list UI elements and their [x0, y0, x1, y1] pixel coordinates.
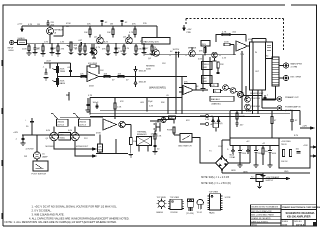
svg-text:7.5V: 7.5V	[240, 54, 245, 56]
svg-text:Q5: Q5	[46, 138, 49, 140]
svg-text:500K: 500K	[146, 68, 151, 70]
diode D20 rectifier	[212, 117, 215, 128]
resistor R61	[271, 111, 277, 139]
resistor R4 collector load	[84, 24, 91, 38]
svg-text:DWELL: DWELL	[202, 64, 210, 66]
svg-text:SHIELD: SHIELD	[18, 38, 26, 40]
resistor R42	[128, 129, 137, 158]
resistor R45	[169, 116, 176, 120]
svg-text:10K: 10K	[74, 45, 78, 47]
reverb return ladder	[201, 55, 212, 91]
svg-text:(2)TO-3: (2)TO-3	[79, 124, 86, 126]
wire output bar feeds	[262, 86, 276, 100]
svg-text:LAMP: LAMP	[42, 156, 48, 159]
filter rail top	[230, 138, 279, 146]
capacitor C11 input	[43, 67, 49, 81]
svg-text:MPSA18: MPSA18	[188, 47, 197, 50]
resistor R9 to gnd	[102, 44, 110, 56]
diode D1 clamp up	[134, 66, 147, 77]
svg-text:22pF: 22pF	[148, 101, 153, 103]
svg-text:REV: REV	[202, 44, 207, 46]
svg-text:FOOT SWITCH: FOOT SWITCH	[32, 174, 47, 176]
diode D10	[227, 146, 235, 155]
regulator box	[279, 138, 310, 168]
svg-text:REV: REV	[202, 78, 207, 80]
reverb feedback loop	[216, 32, 246, 43]
svg-text:47K: 47K	[61, 49, 65, 51]
node dots mixer out	[114, 76, 144, 77]
resistor R3 labels	[66, 23, 148, 28]
capacitor C7 rail decouple	[120, 20, 128, 26]
resistor R21 input	[80, 74, 86, 78]
svg-text:BREAKER: BREAKER	[137, 133, 147, 136]
svg-text:GRN: GRN	[231, 170, 236, 172]
transistor Q13 pre-driver	[230, 88, 236, 94]
svg-text:SCHEMATIC DIAGRAM-: SCHEMATIC DIAGRAM-	[286, 211, 315, 215]
svg-text:120VAC: 120VAC	[151, 133, 159, 136]
wire switch to bridge	[192, 138, 216, 164]
svg-text:1.5K: 1.5K	[157, 136, 162, 138]
svg-text:NOTE: SW(+) = 1 + 2 3 4 B: NOTE: SW(+) = 1 + 2 3 4 B	[201, 177, 229, 179]
diode D21 rectifier	[217, 117, 220, 128]
node dots filter	[239, 145, 270, 166]
svg-text:220K: 220K	[224, 41, 229, 43]
transistor Q3a buffer	[91, 44, 97, 58]
wire PA top rail	[90, 97, 182, 99]
capacitor C10 electrolytic pair	[173, 49, 180, 58]
svg-text:6.8K: 6.8K	[138, 49, 143, 51]
svg-text:10K: 10K	[104, 74, 108, 76]
resistor R23	[104, 74, 111, 78]
transformer T2 aux circuit	[243, 172, 289, 189]
svg-text:+: +	[89, 80, 90, 82]
wire Q1 connections	[50, 26, 63, 44]
wire U2 out to reverb tank	[248, 39, 266, 47]
node dot tone	[57, 62, 58, 63]
svg-text:14 PIN: 14 PIN	[225, 197, 231, 199]
wire Q3 stubs	[128, 35, 130, 44]
svg-text:1.2K: 1.2K	[118, 51, 123, 53]
wire jack feeds	[262, 99, 277, 108]
resistor R5 to gnd	[79, 44, 87, 56]
wire bridge right	[229, 146, 251, 163]
svg-text:25V: 25V	[51, 25, 55, 27]
svg-text:DWG NO.: DWG NO.	[294, 221, 303, 223]
ground rail bottom	[230, 173, 310, 178]
wire bridge bottom	[222, 170, 262, 174]
svg-text:TOP VIEW: TOP VIEW	[209, 191, 218, 193]
resistor R31 reverb mix	[224, 41, 234, 55]
transistor Q5	[188, 47, 197, 57]
svg-text:TREB: TREB	[60, 71, 66, 73]
svg-text:DATE 10-2-79 SHT 1: DATE 10-2-79 SHT 1	[251, 220, 268, 223]
resistor R8 collector load	[107, 24, 114, 38]
dashed shield box	[186, 19, 284, 53]
svg-text:30710-S: 30710-S	[296, 224, 305, 226]
wire main row 1	[27, 43, 158, 45]
wire treble bus vertical	[57, 63, 59, 87]
bias network box	[210, 83, 234, 105]
capacitor C41 electrolytic	[238, 146, 247, 168]
svg-text:470K: 470K	[66, 23, 71, 25]
resistor R14 to gnd	[134, 44, 143, 56]
transistor Q12 pre-driver	[223, 85, 229, 91]
thermal breaker box	[137, 131, 152, 152]
op-amp U1 mixer	[87, 72, 99, 82]
title block	[251, 205, 317, 226]
bridge rectifier BR1	[216, 154, 237, 171]
wire output rail	[22, 134, 95, 136]
node dots row1	[42, 43, 144, 44]
package outline: TO-220	[188, 199, 194, 211]
svg-text:1N4148: 1N4148	[139, 82, 147, 84]
svg-text:8.2V: 8.2V	[104, 42, 109, 44]
svg-text:PATCH EQ 47K: PATCH EQ 47K	[144, 40, 160, 43]
wire Q2 emitter-collector	[90, 35, 100, 44]
svg-text:GND: GND	[284, 171, 289, 173]
svg-text:TO-92: TO-92	[197, 212, 202, 214]
power switch box	[174, 133, 192, 148]
resistor R13 to gnd	[118, 44, 126, 56]
svg-text:+20V REG: +20V REG	[281, 141, 291, 143]
wire tone input	[44, 63, 71, 69]
svg-text:MJ15003: MJ15003	[46, 146, 54, 148]
svg-text:2N6254: 2N6254	[79, 121, 86, 123]
svg-text:+42V: +42V	[13, 132, 19, 134]
svg-text:10K: 10K	[118, 74, 122, 76]
resistor R20	[199, 48, 206, 55]
svg-text:2.1V: 2.1V	[222, 58, 227, 60]
svg-text:REV A: REV A	[251, 224, 257, 227]
svg-text:+15V: +15V	[187, 29, 193, 31]
svg-text:BASS: BASS	[60, 82, 66, 85]
svg-text:47K 4558: 47K 4558	[88, 63, 98, 65]
wire jack to pad	[14, 43, 18, 44]
jack J3 ext speaker	[279, 75, 302, 80]
svg-text:4.7K/5W: 4.7K/5W	[26, 149, 34, 151]
wire reverb vertical drops	[241, 51, 243, 114]
resistor R12 collector load	[129, 24, 136, 38]
svg-text:TOP VIEW: TOP VIEW	[170, 197, 179, 199]
svg-text:DRAWN JW CHK APPD: DRAWN JW CHK APPD	[251, 217, 271, 220]
svg-text:FUSE: FUSE	[167, 130, 173, 132]
feedback loop lower	[96, 139, 128, 154]
transistor Q16	[212, 52, 218, 61]
wire tone-to-PA	[60, 117, 103, 119]
svg-text:NOTE: 1. ALL RESISTORS VALUES: NOTE: 1. ALL RESISTORS VALUES ARE IN OHM…	[5, 220, 118, 224]
svg-text:SCALE: SCALE	[282, 220, 289, 223]
node dots row2	[169, 54, 220, 55]
transistor Q10	[245, 104, 261, 110]
svg-text:CA3094: CA3094	[156, 211, 163, 214]
svg-text:5W(2): 5W(2)	[60, 138, 66, 140]
transistor Q14 driver	[221, 86, 263, 100]
transistor Q15 reverb switch	[150, 117, 166, 122]
svg-text:ANG =1 DEG MATL FINISH: ANG =1 DEG MATL FINISH	[251, 214, 274, 217]
wire bridge top	[222, 140, 230, 157]
svg-text:PEAVEY ELECTRONICS CORP. MERID: PEAVEY ELECTRONICS CORP. MERIDIAN	[282, 206, 320, 209]
svg-text:(TO-220): (TO-220)	[186, 213, 194, 215]
op-amp U2 reverb driver	[236, 35, 253, 52]
diode D11	[247, 146, 250, 155]
svg-text:EXT. SPKR: EXT. SPKR	[291, 77, 302, 79]
svg-text:MAIN SPKR: MAIN SPKR	[291, 63, 303, 66]
svg-text:0.55V: 0.55V	[246, 111, 252, 113]
node dots PA rail	[114, 97, 176, 98]
transistor Q4	[148, 50, 159, 60]
svg-text:100pF: 100pF	[93, 102, 100, 104]
svg-text:470K: 470K	[96, 133, 101, 135]
svg-text:SUPPLY: SUPPLY	[266, 180, 274, 182]
fuse resistor	[158, 120, 175, 134]
emitter resistor box	[59, 133, 71, 141]
reverb tank enclosure	[250, 42, 266, 95]
package outline: DIP-14 top view	[207, 191, 222, 210]
svg-text:UNLESS NOTED TOLERANCES: UNLESS NOTED TOLERANCES	[251, 205, 278, 208]
svg-text:MJE3055: MJE3055	[252, 106, 261, 108]
svg-text:1N5402(4): 1N5402(4)	[213, 123, 223, 125]
svg-text:250K: 250K	[60, 81, 65, 83]
svg-text:0.6V: 0.6V	[198, 59, 203, 61]
attenuator pad box	[18, 38, 27, 45]
patch jack box	[142, 38, 170, 45]
bass pot	[52, 79, 65, 86]
svg-text:10K: 10K	[66, 95, 70, 97]
svg-text:NONE: NONE	[282, 224, 288, 226]
svg-text:+21V PREAMP: +21V PREAMP	[266, 176, 280, 179]
svg-text:(MAIN BD): (MAIN BD)	[212, 103, 222, 106]
node dots output rail	[31, 134, 75, 135]
svg-text:47K: 47K	[132, 24, 136, 26]
transistor Q2	[94, 37, 103, 44]
notes text block	[5, 205, 130, 225]
svg-text:2.2K: 2.2K	[149, 106, 154, 108]
wire tank to bus	[253, 90, 263, 114]
wire V+ rail	[22, 25, 157, 27]
resistor R40	[114, 98, 122, 120]
bias pot P6	[73, 113, 90, 126]
op-amp U4	[179, 82, 196, 95]
svg-text:4. ALL CAPACITORS VALUES ARE I: 4. ALL CAPACITORS VALUES ARE IN MICROFAR…	[29, 216, 130, 220]
capacitor C0 to gnd	[33, 44, 41, 55]
capacitor C6 to gnd	[114, 44, 122, 55]
reverb return labels	[146, 66, 155, 71]
svg-text:220K: 220K	[22, 49, 27, 51]
svg-text:+20V: +20V	[303, 145, 308, 147]
supply arrow +15V	[183, 25, 192, 34]
svg-text:NOTE: SW(-) = 1 + 2 B C (D): NOTE: SW(-) = 1 + 2 B C (D)	[201, 183, 231, 185]
wire PA bus rails	[90, 111, 290, 117]
svg-text:2W: 2W	[24, 156, 27, 158]
AC outlet O2	[200, 122, 214, 126]
capacitor C15 comp	[93, 102, 100, 109]
wire row 2	[144, 54, 236, 56]
svg-text:MDA: MDA	[230, 154, 235, 157]
svg-text:2N6254: 2N6254	[57, 121, 64, 123]
svg-text:BIAS ADJ: BIAS ADJ	[211, 98, 220, 101]
svg-text:DIM .XX=.01 FRAC=1/32: DIM .XX=.01 FRAC=1/32	[251, 210, 271, 213]
transistor Q1	[47, 28, 64, 35]
wire riser R44	[140, 98, 154, 112]
svg-text:4.7K: 4.7K	[88, 95, 93, 97]
node dots bus	[175, 113, 242, 114]
capacitor C13 tone	[66, 92, 70, 101]
svg-text:+: +	[238, 49, 239, 51]
volume pot P1	[67, 42, 79, 55]
footswitch box	[32, 159, 49, 175]
capacitor C8 to gnd	[142, 44, 150, 55]
capacitor C4 to gnd	[90, 44, 98, 55]
svg-text:1.9V: 1.9V	[44, 42, 49, 44]
svg-text:10/25V: 10/25V	[173, 49, 180, 51]
svg-text:1M: 1M	[37, 49, 40, 51]
level pot box	[201, 41, 210, 53]
supply arrow -20V	[310, 155, 316, 157]
svg-text:0.47: 0.47	[60, 135, 64, 137]
svg-text:+21V: +21V	[17, 24, 23, 26]
resistor R62	[262, 146, 269, 166]
svg-text:0.6V: 0.6V	[68, 130, 73, 132]
resistor R0 jack load	[22, 44, 31, 56]
resistor R24	[118, 74, 125, 78]
capacitor C43 electrolytic	[268, 146, 277, 168]
transistor Q3	[123, 37, 132, 44]
svg-text:PRE: PRE	[187, 32, 192, 34]
svg-text:(2)TO-3: (2)TO-3	[57, 124, 64, 126]
wire rail drop to patch	[156, 26, 158, 38]
capacitor C30	[264, 95, 270, 99]
transistor Q8 power	[71, 126, 79, 140]
resistor R1 to gnd	[37, 44, 46, 56]
svg-text:47K: 47K	[199, 51, 203, 53]
svg-text:MJE2955: MJE2955	[252, 98, 261, 100]
supply arrow +20V	[303, 145, 316, 148]
wire rectifier row	[213, 128, 219, 132]
svg-text:100K: 100K	[202, 81, 207, 83]
svg-text:4.7K: 4.7K	[222, 32, 227, 34]
resistor R6 bias divider	[75, 44, 83, 56]
svg-text:22K: 22K	[220, 64, 224, 66]
svg-text:1M: 1M	[110, 24, 113, 26]
capacitor C42 electrolytic	[254, 146, 263, 168]
svg-text:MJ15003: MJ15003	[76, 146, 84, 148]
resistor R16 to gnd	[150, 44, 158, 56]
svg-text:4.7K: 4.7K	[129, 32, 134, 34]
svg-text:3. W/B 12&A/B AND PLATE.: 3. W/B 12&A/B AND PLATE.	[32, 213, 65, 217]
svg-text:GND SWITCH: GND SWITCH	[178, 146, 192, 148]
package outline: DIP-8 top view	[168, 197, 184, 210]
wire tone bus to op-amp	[58, 76, 88, 78]
svg-text:100K: 100K	[202, 67, 207, 69]
wire mixer out	[99, 76, 187, 78]
AC plug	[151, 123, 161, 139]
svg-text:HIGH: HIGH	[9, 50, 15, 52]
svg-text:5.1K: 5.1K	[205, 119, 210, 121]
capacitor C14 bypass	[86, 98, 91, 113]
capacitor C1 to gnd	[50, 44, 58, 55]
capacitor C20 rail	[25, 118, 34, 135]
svg-text:1.5K: 1.5K	[117, 107, 122, 109]
svg-text:REVERB: REVERB	[146, 66, 155, 68]
svg-text:22K: 22K	[87, 24, 91, 26]
svg-text:47K: 47K	[102, 49, 106, 51]
svg-text:78L20: 78L20	[281, 144, 287, 146]
svg-text:4 OHM: 4 OHM	[291, 67, 298, 69]
svg-text:+42V: +42V	[302, 126, 308, 128]
wire U3 out	[125, 125, 131, 129]
svg-text:60HZ: 60HZ	[151, 136, 157, 138]
svg-text:10K: 10K	[84, 32, 88, 34]
svg-text:1.1V: 1.1V	[125, 48, 130, 50]
svg-text:+: +	[105, 128, 106, 130]
input jack J1	[8, 40, 15, 52]
svg-text:THERMAL: THERMAL	[137, 131, 147, 134]
capacitor C2 rail bypass	[46, 20, 55, 27]
svg-text:RC4558: RC4558	[171, 212, 178, 214]
svg-text:0.6V: 0.6V	[46, 130, 51, 132]
transistor Q7 power	[50, 126, 58, 140]
svg-text:120V: 120V	[218, 146, 223, 148]
svg-text:250K: 250K	[60, 69, 65, 71]
svg-text:1N4148: 1N4148	[139, 71, 147, 73]
svg-text:10K: 10K	[107, 32, 111, 34]
capacitor C5 rail decouple	[100, 20, 108, 26]
zobel loop	[230, 111, 310, 139]
svg-text:KB-100 AMPLIFIER: KB-100 AMPLIFIER	[287, 215, 311, 219]
svg-text:POWER AMP IN: POWER AMP IN	[285, 106, 301, 109]
svg-text:970A1: 970A1	[230, 156, 237, 159]
wire riser R46	[161, 98, 169, 115]
transistor Q6 driver	[119, 121, 125, 127]
svg-text:PREAMP OUT: PREAMP OUT	[285, 96, 299, 99]
reverb transducer box	[266, 42, 273, 59]
capacitor C3 coupling	[78, 40, 83, 45]
diode D2 clamp down	[134, 77, 147, 88]
pilot lamp	[33, 135, 48, 159]
supply arrow +42V	[300, 126, 314, 130]
feedback resistor R22	[87, 63, 99, 74]
package outline: TO-92	[197, 199, 203, 209]
transistor Q9	[245, 97, 261, 103]
svg-text:10K 1K: 10K 1K	[281, 161, 288, 163]
svg-text:8.2V: 8.2V	[294, 135, 299, 137]
AC outlet O1	[200, 114, 214, 118]
resistor R2 to gnd	[56, 44, 65, 56]
svg-text:10/5W: 10/5W	[239, 116, 245, 118]
wire drop mixer to bus	[182, 77, 187, 114]
node voltage callouts texture	[24, 41, 299, 173]
svg-text:0.7V: 0.7V	[96, 47, 101, 49]
svg-text:.0047: .0047	[46, 61, 52, 63]
capacitor C17	[153, 131, 162, 155]
svg-text:1M: 1M	[37, 24, 40, 26]
svg-text:1. +DC V DC AT NO SIGNAL,SIGNA: 1. +DC V DC AT NO SIGNAL,SIGNAL VOLTAGE …	[32, 205, 118, 209]
op-amp U3 driver	[103, 119, 117, 130]
capacitor C12	[67, 63, 72, 77]
svg-text:PA265: PA265	[209, 212, 215, 215]
wire U4 out	[194, 89, 208, 91]
bias pot P5	[51, 113, 68, 126]
svg-text:MPSA18: MPSA18	[55, 29, 64, 32]
svg-text:10K: 10K	[154, 49, 158, 51]
capacitor C40	[290, 111, 298, 131]
resistor R30	[217, 62, 225, 74]
svg-text:(MAIN BOARD): (MAIN BOARD)	[149, 87, 166, 90]
output bar hatched	[272, 57, 279, 86]
svg-text:1.3V: 1.3V	[60, 42, 65, 44]
jack J2 main speaker	[279, 63, 302, 69]
wire speaker lines	[54, 141, 95, 156]
